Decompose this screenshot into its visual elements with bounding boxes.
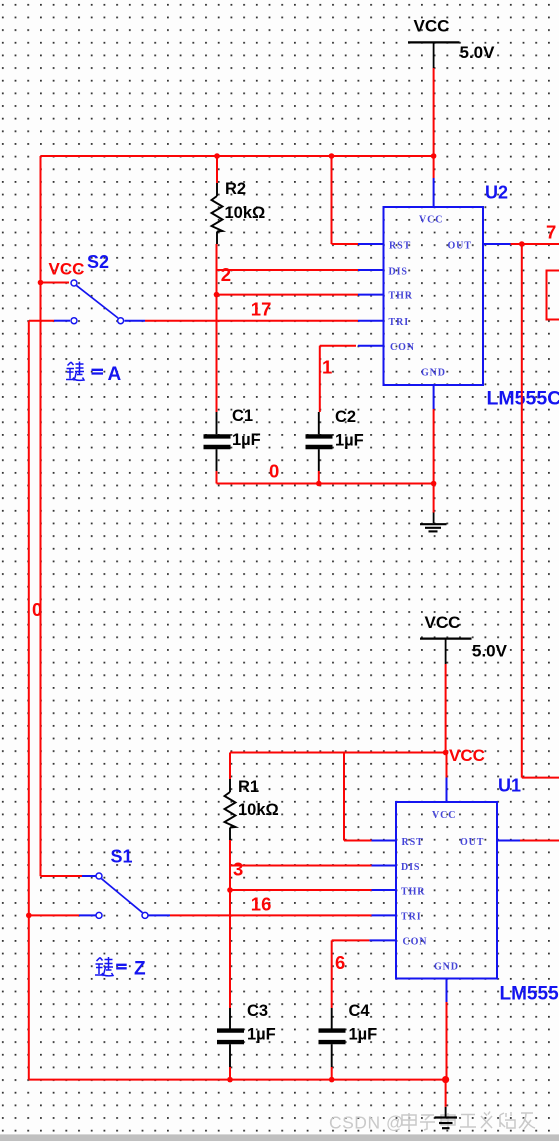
svg-text:6: 6 xyxy=(335,952,345,973)
wire DIS of U2 xyxy=(217,269,359,271)
wire TRI of U2 from switch S2 xyxy=(145,320,358,322)
svg-text:0: 0 xyxy=(32,599,42,620)
svg-text:R2: R2 xyxy=(225,180,246,198)
bottom gray bar xyxy=(0,1134,559,1141)
wire THR of U2 xyxy=(217,294,359,296)
wire VCC pin red stub xyxy=(433,156,435,178)
wire R2 bottom vertical to C1 xyxy=(216,244,218,412)
wire bottom VCC rail xyxy=(230,752,446,754)
svg-text:1µF: 1µF xyxy=(335,432,364,450)
ground symbol xyxy=(420,513,447,532)
wire DIS of U1 xyxy=(230,865,372,867)
watermark CSDN xyxy=(329,1112,535,1133)
wire C2 bottom to 0 rail xyxy=(318,471,320,484)
wire left VCC vertical (to S2 and S1) xyxy=(40,156,42,876)
wire VCC pin red stub (U1) xyxy=(446,753,448,778)
junction C2 on 0 rail xyxy=(316,481,322,487)
svg-text:THR: THR xyxy=(401,887,425,898)
svg-text:LM555CN: LM555CN xyxy=(500,984,559,1005)
svg-text:OUT: OUT xyxy=(448,241,472,252)
svg-text:TRI: TRI xyxy=(389,317,409,328)
wire CON of U2 xyxy=(320,346,356,412)
wire THR of U1 xyxy=(230,889,372,891)
svg-text:DIS: DIS xyxy=(401,862,420,873)
wire OUT long vertical down to lower circuit xyxy=(521,244,523,778)
wire RST of U1 xyxy=(344,753,372,841)
wire C1 bottom to 0 rail xyxy=(216,471,218,484)
junction GND stub on 0 rail xyxy=(442,1076,449,1083)
wire C4 bottom to 0 rail xyxy=(331,1067,333,1080)
svg-text:10kΩ: 10kΩ xyxy=(238,801,279,819)
op-amp timer U2 LM555CN xyxy=(358,178,511,409)
wire OUT of U1 to right edge xyxy=(520,840,559,842)
svg-text:OUT: OUT xyxy=(460,837,484,848)
wire top VCC rail xyxy=(41,155,434,157)
svg-text:RST: RST xyxy=(402,837,424,848)
svg-text:Z: Z xyxy=(134,959,146,980)
wire GND pin to 0 rail (U1) xyxy=(446,1002,448,1080)
junction S1 ground tap xyxy=(26,913,32,919)
resistor R2 10kOhm xyxy=(212,156,266,244)
svg-text:1µF: 1µF xyxy=(349,1026,378,1044)
svg-text:10kΩ: 10kΩ xyxy=(225,204,266,222)
svg-text:7: 7 xyxy=(546,222,556,243)
junction THR tap xyxy=(214,292,220,298)
svg-text:S2: S2 xyxy=(87,252,109,272)
svg-text:C1: C1 xyxy=(232,407,253,425)
svg-text:VCC: VCC xyxy=(49,260,85,279)
key Z annotation xyxy=(95,957,146,980)
svg-text:1: 1 xyxy=(322,357,332,378)
svg-text:C2: C2 xyxy=(335,408,356,426)
svg-text:TRI: TRI xyxy=(401,912,421,923)
junction VCC bottom xyxy=(443,750,449,756)
wire VCC source down to top rail xyxy=(433,68,435,156)
ground symbol (bottom, overlapping watermark) xyxy=(435,1107,458,1128)
wire CON of U1 xyxy=(332,940,370,1008)
junction C4 on 0 rail xyxy=(329,1077,335,1083)
svg-text:VCC: VCC xyxy=(449,746,485,765)
svg-text:C4: C4 xyxy=(349,1002,371,1020)
svg-text:3: 3 xyxy=(233,859,243,880)
subcircuit box (clipped at right edge) xyxy=(547,271,559,320)
svg-text:1µF: 1µF xyxy=(247,1026,276,1044)
junction S2 VCC tap xyxy=(38,280,44,286)
svg-text:16: 16 xyxy=(251,893,272,914)
svg-text:U2: U2 xyxy=(485,183,508,203)
wire VCC source down to bottom rail xyxy=(445,664,447,753)
svg-text:1µF: 1µF xyxy=(232,431,261,449)
junction OUT xyxy=(519,241,525,247)
svg-text:U1: U1 xyxy=(498,776,521,796)
svg-text:17: 17 xyxy=(251,299,272,320)
junction THR tap (U1) xyxy=(227,887,233,893)
svg-text:A: A xyxy=(108,364,122,385)
wire 0 rail (bottom circuit) xyxy=(29,1079,446,1081)
svg-text:VCC: VCC xyxy=(425,613,461,632)
power VCC source (bottom) 5.0V xyxy=(420,613,508,664)
resistor R1 10kOhm xyxy=(225,753,279,841)
junction GND on 0 rail xyxy=(431,481,437,487)
op-amp timer U1 LM555CN xyxy=(369,778,520,1003)
svg-text:CON: CON xyxy=(403,937,428,948)
power VCC source (top) 5.0V xyxy=(408,17,495,69)
wire OUT of U2 to right xyxy=(511,243,559,245)
svg-text:R1: R1 xyxy=(238,778,259,796)
svg-text:2: 2 xyxy=(221,264,231,285)
svg-text:VCC: VCC xyxy=(432,810,456,821)
wire ground vertical (net 0, left) xyxy=(28,321,30,1080)
wire 0 rail (top circuit) xyxy=(217,483,434,485)
wire lower OUT branch to right edge xyxy=(522,777,559,779)
capacitor C4 1uF xyxy=(319,1002,378,1067)
svg-text:DIS: DIS xyxy=(389,267,408,278)
capacitor C2 1uF xyxy=(306,408,364,471)
junction VCC drop xyxy=(431,153,437,159)
wire to ground symbol xyxy=(433,484,435,514)
svg-text:5.0V: 5.0V xyxy=(472,642,508,661)
svg-text:GND: GND xyxy=(434,962,459,973)
svg-text:VCC: VCC xyxy=(414,17,450,36)
capacitor C1 1uF xyxy=(204,407,261,471)
svg-text:5.0V: 5.0V xyxy=(460,43,496,62)
svg-text:VCC: VCC xyxy=(419,215,443,226)
junction C3 on 0 rail xyxy=(227,1077,233,1083)
key A annotation xyxy=(66,362,122,386)
junction R2 top xyxy=(214,153,220,159)
svg-text:C3: C3 xyxy=(247,1002,268,1020)
switch S1 xyxy=(29,847,170,919)
svg-text:0: 0 xyxy=(269,461,279,482)
svg-text:RST: RST xyxy=(389,241,411,252)
wire GND pin to 0 rail xyxy=(433,409,435,484)
switch S2 xyxy=(29,252,145,324)
svg-text:CSDN @: CSDN @ xyxy=(329,1113,404,1133)
junction RST branch top xyxy=(329,153,335,159)
wire C3 bottom to 0 rail xyxy=(229,1067,231,1080)
wire ground stub below rail xyxy=(445,1080,447,1107)
wire RST of U2 xyxy=(332,156,359,244)
svg-text:THR: THR xyxy=(389,291,413,302)
wire TRI of U1 from switch S1 xyxy=(170,914,372,916)
capacitor C3 1uF xyxy=(217,1002,276,1067)
svg-text:CON: CON xyxy=(390,342,415,353)
svg-text:S1: S1 xyxy=(111,847,133,867)
wire R1 bottom vertical to C3 xyxy=(229,840,231,1008)
svg-text:GND: GND xyxy=(421,368,446,379)
